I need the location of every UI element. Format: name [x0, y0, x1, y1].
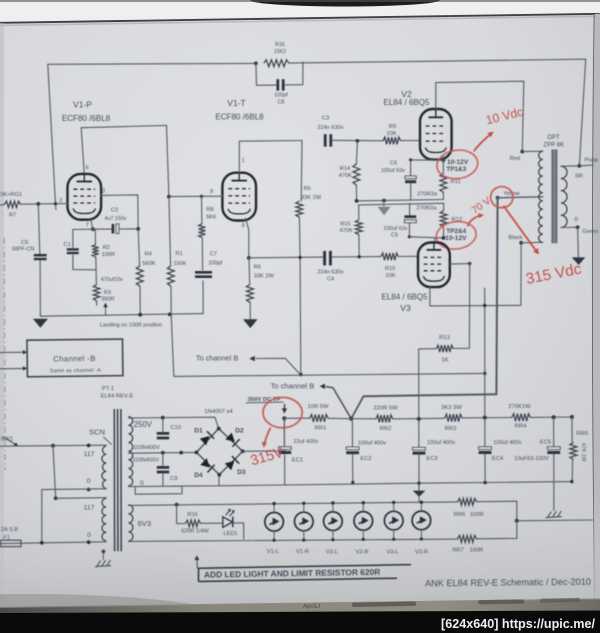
resistor R10 [381, 253, 398, 260]
lamp V1-L [265, 513, 284, 532]
fuse F1 [1, 540, 22, 546]
wire lamp V2-L top [332, 503, 334, 512]
wire lamp V2-R top [362, 503, 364, 512]
red circle around 350V DC TP [263, 397, 302, 427]
svg-text:10uF63-100V: 10uF63-100V [514, 456, 549, 462]
rail RR1 to apex [328, 417, 351, 419]
wire cathode node to C1 and C2 [73, 228, 93, 230]
node bridge left [195, 451, 199, 455]
capacitor C1 [67, 248, 79, 250]
node R1 bus [168, 313, 172, 317]
red circle TP1&3 [435, 148, 479, 181]
svg-text:Same as channel -A: Same as channel -A [50, 368, 102, 375]
svg-text:D3: D3 [237, 469, 246, 476]
node bridge bottom [217, 473, 221, 477]
wire EC2 stem [351, 419, 353, 446]
svg-text:PT-1: PT-1 [102, 386, 114, 392]
svg-text:C4: C4 [327, 276, 334, 282]
svg-text:220R 5W: 220R 5W [373, 405, 398, 411]
node Yellow tap [496, 196, 500, 200]
wire channel B upper tap [256, 358, 301, 374]
capacitor C9 input [34, 254, 47, 257]
svg-text:560K: 560K [142, 261, 155, 267]
wire mains bottom [0, 542, 106, 544]
svg-text:V3-R: V3-R [415, 550, 428, 556]
node C2 right plate node [136, 227, 140, 231]
svg-text:C7: C7 [210, 251, 217, 257]
wire R14 grid leak [356, 141, 357, 164]
svg-text:47K 1W: 47K 1W [580, 443, 586, 462]
svg-text:0K>RG1: 0K>RG1 [1, 192, 23, 198]
svg-text:V3: V3 [400, 303, 411, 313]
wire cathode V1-P down [91, 218, 93, 229]
PT secondary 250V winding [128, 417, 132, 486]
wire bridge plus to EC1 node [243, 418, 285, 451]
wire winding2 top tap [56, 497, 106, 500]
wire secondary bottom to 0 tap [561, 226, 578, 228]
svg-text:22uf 400v: 22uf 400v [293, 439, 318, 445]
wire C6 to ground bus [410, 183, 412, 200]
svg-text:100R: 100R [470, 547, 484, 553]
wire R11 top lead [442, 160, 444, 173]
svg-text:68PF-CN: 68PF-CN [12, 247, 34, 253]
rail RR2 to EC3 node [393, 417, 445, 420]
svg-text:117: 117 [84, 451, 95, 458]
wire bridge minus jog [182, 475, 219, 486]
wire EC1 stem and cap [283, 418, 285, 446]
resistor R16 feedback [264, 60, 289, 67]
svg-text:F1: F1 [3, 535, 10, 541]
node 6R [578, 164, 582, 168]
svg-text:R16: R16 [275, 42, 285, 48]
svg-text:To channel B: To channel B [196, 353, 238, 362]
page border dash-dot left [3, 238, 6, 470]
resistor R7 [5, 201, 21, 207]
wire diagonal to rail apex [351, 396, 363, 418]
chassis ground PT [95, 560, 111, 567]
wire C4 to R10 [332, 256, 381, 258]
wire R4 to bus [139, 286, 141, 315]
tube V3 [418, 243, 450, 288]
resistor RR1 [310, 415, 328, 422]
wire C9psu stem [162, 453, 164, 466]
svg-text:RR7: RR7 [453, 547, 464, 553]
svg-text:470K: 470K [339, 173, 352, 179]
svg-text:C9: C9 [21, 240, 28, 246]
svg-text:EC3: EC3 [426, 456, 437, 462]
svg-text:R4: R4 [145, 251, 152, 257]
wire R9 to V2 grid [401, 140, 421, 142]
svg-text:R2: R2 [103, 245, 110, 251]
svg-text:C9: C9 [170, 476, 177, 482]
PT primary winding 1 [102, 446, 106, 489]
wire R13 left to EC3 vertical [419, 348, 437, 350]
svg-text:620R 1/4W: 620R 1/4W [181, 529, 209, 535]
node rail RR5 [570, 415, 574, 419]
chassis ground EC5 [546, 511, 562, 518]
wire EC3 bottom to bus [418, 455, 420, 483]
node junction R16 left [254, 62, 258, 66]
wire LED branch down [177, 505, 186, 524]
node input to C9 [36, 202, 40, 206]
node V1-T grid feed [167, 195, 171, 199]
wire screen supply vertical x485 [484, 288, 486, 417]
svg-text:100uf 63v: 100uf 63v [383, 226, 407, 232]
node rail TP350 [282, 416, 286, 420]
resistor R3 [93, 285, 99, 301]
node rail EC5 [552, 415, 556, 419]
svg-text:V1-L: V1-L [267, 549, 279, 555]
wire R11 bottom lead [442, 193, 444, 200]
wire EC5 bottom crosses bus to chassis ground [553, 454, 555, 510]
node R14 top [356, 139, 360, 143]
arrowhead to channel B lower [320, 384, 325, 389]
svg-text:100uf 400v: 100uf 400v [427, 440, 455, 446]
capacitor C7 [195, 271, 212, 274]
node bridge right [241, 449, 245, 453]
top strip above page edge [0, 0, 600, 23]
wire input grid [0, 204, 5, 206]
svg-text:C5: C5 [391, 233, 398, 239]
resistor R11 [440, 173, 447, 192]
resistor RR6 [458, 498, 477, 505]
svg-text:10K: 10K [386, 273, 396, 279]
svg-text:5K6: 5K6 [206, 214, 216, 220]
svg-text:100pf: 100pf [208, 260, 222, 266]
node Black tap [519, 241, 523, 245]
wire EC4 bottom [484, 454, 486, 482]
node bridge left feed [179, 451, 183, 455]
svg-text:224n 630v: 224n 630v [317, 270, 343, 276]
wire humbuster to speaker return [517, 519, 593, 522]
node C10 bottom middle tap [161, 451, 165, 455]
svg-text:EC2: EC2 [360, 456, 371, 462]
capacitor EC1 [279, 447, 292, 450]
wire signal C4 line [249, 256, 323, 259]
red arrow Yellow to 315Vdc [503, 206, 536, 252]
node B plus feed joins screen vertical [483, 372, 486, 375]
svg-text:103N400V: 103N400V [133, 445, 160, 451]
bridge diamond [196, 429, 242, 475]
svg-text:100uf 63v: 100uf 63v [381, 168, 405, 174]
wire lamp V3-L bottom [393, 530, 395, 539]
wire C5 stem top [409, 203, 411, 215]
rail B plus [284, 417, 310, 419]
svg-text:EL84 / 6BQ5: EL84 / 6BQ5 [383, 98, 430, 107]
wire screen down to R13 [453, 264, 469, 349]
svg-text:RR3: RR3 [445, 426, 457, 432]
ground symbol output stage [383, 201, 385, 207]
node C6 top [409, 158, 412, 161]
diode D2 [225, 433, 235, 442]
wire lamp V3-L top [393, 502, 395, 511]
resistor R8 [199, 224, 206, 238]
wire 0 tap to ground [577, 227, 580, 257]
wire lamp V1-L top [273, 504, 275, 513]
wire grid feed down to V1-T grid node [167, 125, 169, 196]
svg-text:1: 1 [242, 158, 245, 164]
lamp V3-R [412, 511, 431, 530]
svg-text:Pupp: Pupp [585, 157, 598, 163]
svg-text:1K: 1K [441, 358, 448, 364]
test point arrow 350V [283, 404, 285, 410]
node screen supply crosses plate wire [483, 304, 486, 307]
wire secondary top to 6R node [561, 165, 580, 167]
svg-text:RR1: RR1 [315, 426, 327, 432]
tube V1-P [68, 174, 102, 220]
svg-text:RR5: RR5 [576, 431, 588, 437]
wire EC3 vertical from R13 to rail [418, 349, 420, 419]
svg-text:SCN: SCN [89, 428, 105, 437]
node ground bus R15 [355, 199, 359, 203]
svg-text:100uf 400v: 100uf 400v [493, 440, 521, 446]
lamp V3-L [384, 511, 403, 530]
svg-text:R3: R3 [104, 290, 111, 296]
wire C7 to bus [202, 281, 204, 314]
node R8 top [200, 195, 203, 198]
svg-text:8: 8 [242, 223, 245, 229]
svg-text:3K3 3W: 3K3 3W [441, 405, 462, 411]
svg-text:R7: R7 [9, 212, 16, 218]
wire C1 bottom jog to R2 chain [73, 255, 96, 270]
svg-text:390R: 390R [101, 296, 114, 302]
diode D3 [225, 461, 235, 470]
node mains top second [87, 444, 91, 448]
svg-text:R9: R9 [389, 124, 396, 130]
svg-text:V1-T: V1-T [227, 98, 246, 108]
wire 250V tap to bridge top [128, 417, 218, 428]
OPT core [551, 150, 557, 244]
svg-text:270R3a: 270R3a [416, 205, 437, 211]
svg-text:C10: C10 [170, 425, 181, 431]
resistor R5 [296, 201, 303, 217]
channel B box [27, 339, 123, 377]
wire B plus thick horizontal to apex [364, 394, 497, 396]
node EC4 ground [483, 481, 486, 484]
wire heater top [128, 502, 457, 506]
svg-text:33K 2W: 33K 2W [254, 274, 275, 280]
wire EC1 to ground bus [284, 454, 286, 485]
wire V1-T top pin to C3 [239, 141, 302, 173]
resistor RR7 [458, 536, 477, 543]
svg-text:EL84 REV-E: EL84 REV-E [101, 393, 134, 399]
node winding1 bottom tap [87, 488, 91, 492]
tube V1-T [222, 173, 256, 221]
node cathode V3 [442, 236, 446, 240]
svg-text:R14: R14 [340, 166, 350, 172]
red arrow to 70 V [468, 216, 481, 227]
dark blob top edge [250, 0, 440, 7]
svg-text:6R: 6R [575, 173, 582, 179]
wire R8 to C7 [201, 238, 203, 270]
ground bus channel A [40, 314, 203, 317]
svg-text:RR4: RR4 [515, 423, 527, 429]
svg-text:9: 9 [210, 189, 213, 195]
svg-text:6: 6 [86, 165, 89, 171]
wire C9 to ground bus [39, 261, 41, 317]
wire diagonal apex to channel B arrow [326, 387, 351, 419]
capacitor C10 [157, 432, 169, 435]
svg-text:Channel -B: Channel -B [53, 354, 96, 364]
resistor R14 [353, 164, 360, 185]
node rail EC3 [417, 417, 421, 421]
wire V2 plate to red lead [436, 81, 524, 151]
resistor R1 [167, 266, 174, 286]
wire R12 bottom [443, 227, 445, 238]
ground symbol V1-T [243, 319, 258, 328]
svg-text:Green: Green [582, 229, 598, 235]
wire V3 plate to black lead [430, 243, 521, 306]
svg-text:EC1: EC1 [292, 458, 303, 464]
wire R5 bottom to signal and B+ feed [299, 217, 300, 374]
wire lamp V1-R top [303, 503, 305, 512]
svg-text:R1: R1 [175, 251, 182, 257]
paper bottom edge and desk band [0, 599, 600, 617]
wire C9 branch down [38, 204, 40, 254]
wire B plus thick vertical from Yellow [496, 198, 497, 394]
svg-text:100pf: 100pf [274, 93, 288, 99]
svg-text:R16: R16 [187, 512, 197, 518]
svg-text:100uf 400v: 100uf 400v [358, 440, 386, 446]
wire feedback right vertical to 6R node [579, 59, 585, 166]
wire lamp V2-R bottom [362, 530, 364, 539]
svg-text:EC4: EC4 [492, 456, 504, 462]
lamp V2-L [324, 512, 343, 531]
svg-text:V1-P: V1-P [73, 99, 92, 109]
PT primary winding 2 [102, 498, 106, 540]
capacitor C8 [276, 79, 279, 90]
capacitor EC3 [413, 447, 426, 450]
wire EC5 stem [553, 417, 555, 446]
LED LED1 [223, 517, 233, 528]
wire Black tap to primary [521, 241, 543, 244]
node core screen bottom [102, 550, 106, 554]
red arrow to 10 Vdc [474, 134, 491, 151]
wire Yellow tap to primary [498, 197, 543, 198]
svg-text:2A S.B: 2A S.B [1, 527, 18, 533]
wire C1 branch [72, 230, 74, 248]
wire feedback top from node A to OPT 6R [48, 62, 256, 65]
diode D4 [200, 458, 210, 467]
svg-text:D1: D1 [194, 428, 203, 435]
note box border [199, 565, 412, 582]
lamp V2-R [354, 512, 373, 531]
wire lamp V2-L bottom [332, 531, 334, 540]
node rail apex [349, 417, 353, 421]
wire EC2 bottom [352, 454, 354, 482]
wire Red tap to primary [522, 150, 543, 152]
resistor R6 [247, 285, 254, 303]
svg-text:V2-L: V2-L [326, 550, 338, 556]
resistor R16 led [185, 520, 200, 527]
wire R5 plate load top [300, 141, 303, 202]
node humbuster [515, 519, 519, 523]
node 0 tap [576, 225, 580, 229]
svg-text:RR2: RR2 [380, 426, 392, 432]
capacitor C4 [323, 251, 326, 266]
svg-text:D4: D4 [194, 472, 203, 479]
svg-text:C6: C6 [390, 160, 397, 166]
svg-text:470uf10v: 470uf10v [101, 277, 123, 283]
svg-text:10K: 10K [387, 131, 397, 137]
node upper channel B tap [299, 373, 303, 377]
ground bus main [219, 482, 572, 486]
svg-text:R6: R6 [254, 265, 261, 271]
ground symbol below bus [418, 483, 420, 490]
svg-text:OPT: OPT [547, 134, 560, 141]
node EC2 ground [351, 481, 354, 484]
wire cathode V2 to C6 [411, 159, 444, 161]
arrowhead to channel B upper [249, 356, 254, 361]
svg-text:117: 117 [84, 504, 95, 511]
wire LED to heater bottom [233, 523, 244, 539]
svg-text:100R: 100R [470, 512, 484, 518]
wire lamp V3-R bottom [420, 530, 422, 539]
svg-text:C1: C1 [64, 242, 71, 248]
node LED branch top [175, 503, 179, 507]
svg-text:33K 2W: 33K 2W [301, 195, 322, 201]
svg-text:Red: Red [510, 156, 521, 162]
wire C3 to R9 [332, 139, 383, 142]
wire 0 tap bottom ac [128, 486, 182, 494]
svg-text:10-12V: 10-12V [445, 235, 467, 242]
node mains bottom fuse side [40, 541, 44, 545]
svg-text:ECF80 /6BL8: ECF80 /6BL8 [215, 113, 264, 122]
svg-text:RR6: RR6 [454, 512, 465, 518]
wire RR5 stem [571, 417, 573, 443]
svg-text:6V3: 6V3 [138, 519, 151, 528]
wire humbuster to RR7 [477, 521, 517, 539]
resistor R15 [355, 220, 362, 235]
wire left vertical from node A to input node [48, 64, 56, 209]
wire mains top [0, 445, 106, 446]
svg-text:LED1: LED1 [223, 531, 237, 537]
wire lamp V3-R top [420, 502, 422, 511]
wire C9 psu bottom [162, 474, 164, 486]
wire V3 top pin [434, 238, 436, 243]
wire V3 screen to R13 drop [450, 263, 470, 266]
OPT primary winding [539, 151, 543, 242]
wire middle tap to bridge left [128, 451, 196, 454]
capacitor C9 psu [157, 466, 169, 469]
wire R1 from grid node down [169, 197, 171, 266]
svg-text:D2: D2 [235, 428, 244, 435]
wire plate node down to R4 [138, 229, 139, 266]
wire C10 stem [162, 418, 164, 432]
svg-text:To channel B: To channel B [271, 381, 315, 390]
wire RR6 to humbuster node [477, 501, 517, 521]
bottom shading of paper [0, 490, 600, 608]
svg-text:EL84 / 6BQ5: EL84 / 6BQ5 [381, 293, 428, 302]
wire RR5 bottom to bus [571, 460, 573, 482]
wire cathode V2 node [442, 156, 445, 160]
wire R6 stem [248, 258, 251, 285]
capacitor C6 electrolytic [405, 176, 416, 179]
wire core screen ground stem [102, 551, 104, 559]
wire lamp V1-R bottom [303, 531, 305, 540]
page right edge line [593, 14, 595, 604]
wire V1-T grid [169, 195, 223, 197]
svg-text:R5: R5 [304, 186, 311, 192]
node bridge top [217, 427, 221, 431]
wire B plus feed long [174, 373, 485, 376]
svg-text:C8: C8 [278, 100, 285, 106]
resistor R4 [136, 266, 143, 286]
page top edge line [0, 14, 600, 23]
svg-text:C3: C3 [322, 115, 329, 121]
wire R1 to bus and down to B+ feed [171, 286, 174, 376]
wire cathode V3 wire [409, 237, 443, 238]
